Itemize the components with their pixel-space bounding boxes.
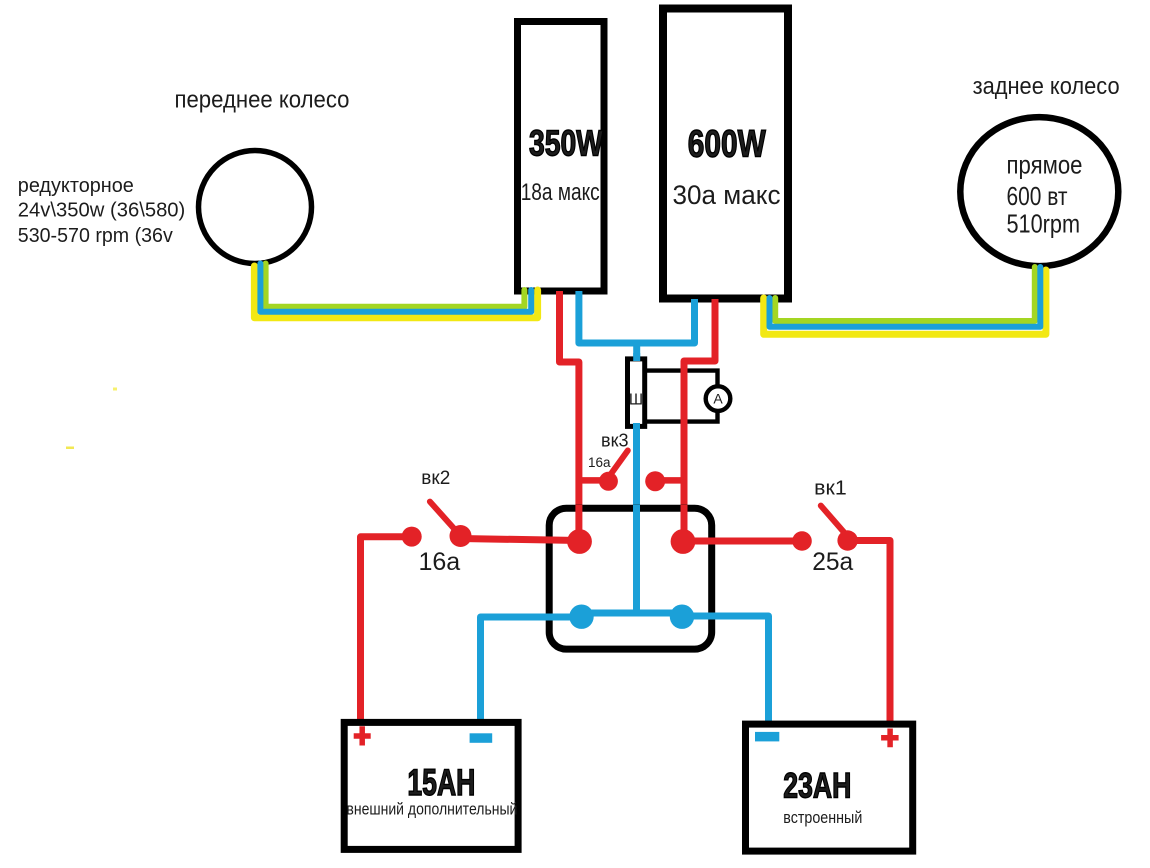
rear phase wire yellow — [764, 270, 1046, 334]
svg-text:16а: 16а — [419, 548, 461, 576]
rear wheel motor circle — [960, 117, 1118, 266]
switch vk3 right lead — [655, 477, 684, 484]
battery 15AH minus terminal — [470, 733, 493, 743]
svg-text:23АН: 23АН — [783, 767, 851, 806]
switch vk2 lead to junction box — [461, 539, 580, 541]
shunt body — [628, 359, 645, 427]
switch vk3 left contact — [599, 472, 618, 491]
switch vk1 lever — [821, 506, 846, 534]
negative bus segment inside junction box — [582, 610, 683, 617]
svg-text:24v\350w (36\580): 24v\350w (36\580) — [18, 200, 186, 222]
svg-text:A: A — [713, 391, 723, 407]
shunt blue stub top — [633, 353, 640, 361]
svg-text:вк1: вк1 — [814, 478, 847, 500]
svg-text:25а: 25а — [812, 548, 853, 576]
red stub into box left — [575, 505, 582, 542]
blue stub into box center — [633, 505, 640, 614]
controller box 350W — [518, 22, 605, 292]
front wheel motor circle — [199, 151, 312, 264]
svg-text:заднее колесо: заднее колесо — [973, 73, 1120, 100]
switch vk1 left contact — [792, 531, 812, 551]
svg-text:Ш: Ш — [629, 392, 643, 409]
ammeter loop wires — [645, 371, 718, 422]
svg-text:15АН: 15АН — [407, 762, 475, 803]
switch vk2 lever — [430, 502, 458, 533]
switch vk1 right contact — [837, 530, 857, 550]
battery 15AH plus terminal — [354, 726, 371, 745]
junction box red terminal left — [567, 529, 592, 554]
battery 23AH box — [746, 724, 913, 851]
junction box blue terminal right — [670, 605, 694, 629]
controller box 600W — [663, 9, 788, 299]
front phase wire yellow — [254, 266, 537, 318]
positive wire from 600W (red) — [684, 299, 715, 542]
front phase wire green — [266, 264, 525, 307]
switch vk1 lead to junction box — [683, 538, 802, 545]
front phase wire blue — [260, 264, 531, 312]
svg-text:внешний дополнительный: внешний дополнительный — [346, 800, 517, 819]
svg-text:вк2: вк2 — [421, 468, 450, 489]
switch vk3 lever — [611, 451, 628, 475]
svg-text:530-570 rpm (36v: 530-570 rpm (36v — [18, 225, 173, 247]
blue wire from shunt to junction box — [633, 424, 640, 614]
svg-text:вк3: вк3 — [601, 431, 628, 451]
negative bus to battery 15AH (blue) — [481, 617, 582, 722]
junction box blue terminal left — [569, 605, 593, 629]
svg-text:встроенный: встроенный — [783, 808, 862, 827]
svg-text:30а макс: 30а макс — [673, 180, 781, 210]
svg-text:510rpm: 510rpm — [1007, 209, 1081, 239]
svg-text:редукторное: редукторное — [18, 175, 134, 197]
stray yellow speck upper — [113, 388, 117, 391]
svg-text:600W: 600W — [688, 124, 766, 166]
switch vk3 right contact — [645, 471, 665, 491]
switch vk1 lead to battery 23AH — [848, 541, 890, 724]
battery 23AH minus terminal — [755, 732, 779, 742]
blue drop from bus to shunt — [633, 343, 640, 361]
rear phase wire green — [775, 267, 1035, 321]
battery 23AH plus terminal — [881, 729, 899, 748]
positive wire from 350W (red) — [560, 291, 579, 542]
svg-text:16а: 16а — [588, 455, 611, 470]
junction box red terminal right — [671, 529, 696, 554]
battery 15AH box — [344, 722, 518, 849]
svg-text:600 вт: 600 вт — [1007, 181, 1068, 211]
negative bus from controllers (blue) — [579, 291, 695, 343]
junction box — [549, 508, 712, 649]
rear phase wire blue — [770, 267, 1041, 327]
red stub into box right — [681, 505, 688, 542]
switch vk2 right contact — [450, 525, 472, 547]
switch vk2 lead to battery 15AH — [361, 537, 412, 722]
switch vk2 left contact — [402, 527, 422, 547]
svg-text:350W: 350W — [529, 123, 603, 164]
ammeter circle A — [706, 386, 731, 411]
negative bus to battery 23AH (blue) — [682, 616, 769, 723]
svg-text:18а макс: 18а макс — [521, 179, 600, 206]
stray yellow speck lower — [66, 447, 74, 450]
switch vk3 left lead — [579, 477, 609, 484]
svg-text:переднее колесо: переднее колесо — [175, 87, 350, 114]
svg-text:прямое: прямое — [1007, 150, 1083, 180]
shunt blue stub bottom — [633, 423, 640, 431]
